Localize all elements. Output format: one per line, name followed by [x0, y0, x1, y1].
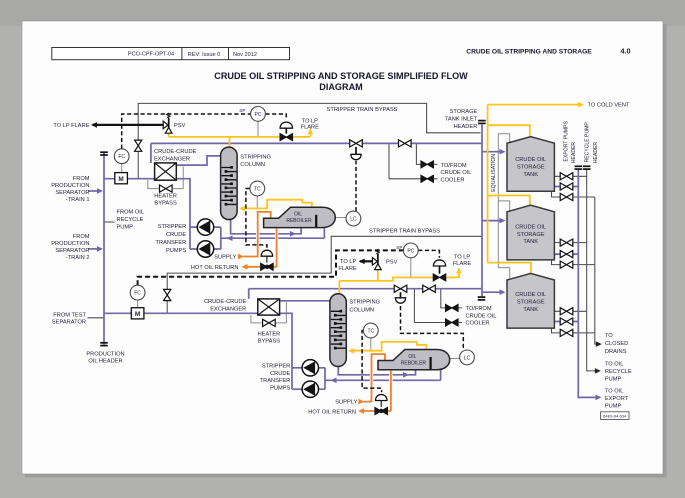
svg-text:BYPASS: BYPASS: [154, 201, 177, 207]
valve: tank2 recycle: [560, 239, 573, 246]
svg-text:TANK: TANK: [523, 239, 538, 245]
instrument LC1: [346, 211, 361, 226]
column C2 trays: [331, 310, 346, 350]
svg-text:TO LP: TO LP: [454, 254, 471, 260]
wire: reboiler1 vapour return: [241, 200, 312, 209]
wire: tank3 inlet branch: [482, 291, 502, 293]
svg-text:TO LP FLARE: TO LP FLARE: [53, 123, 89, 129]
svg-text:STRIPPING: STRIPPING: [240, 154, 271, 160]
wire: tank1 recycle outlet: [554, 175, 586, 177]
flare line 1 (black): [93, 124, 164, 126]
wire: reboiler1 to LC1: [335, 217, 346, 219]
svg-text:TO/FROM: TO/FROM: [466, 306, 492, 312]
signal: PC1 to flare valve1: [265, 114, 286, 120]
wire: hot oil supply 1: [244, 212, 271, 257]
signal: LC1 to rundown valve1: [355, 161, 357, 212]
arrow: hot oil return 1 out: [242, 264, 248, 270]
svg-text:PUMP: PUMP: [117, 225, 134, 231]
svg-text:CRUDE OIL STRIPPING AND STORAG: CRUDE OIL STRIPPING AND STORAGE SIMPLIFI…: [214, 71, 468, 81]
wire: hot oil return 1: [247, 229, 277, 267]
arrow: column2 bottoms flow: [403, 372, 409, 378]
svg-text:4.0: 4.0: [621, 47, 631, 56]
valve: tank3 drain: [560, 329, 573, 336]
page shadow: [663, 24, 667, 476]
valve: heater bypass 2: [263, 319, 276, 326]
svg-text:FLARE: FLARE: [453, 261, 472, 267]
svg-text:PC: PC: [255, 112, 262, 118]
flare line 2 arrowhead: [359, 259, 365, 265]
pump P2B stripper crude transfer: [302, 381, 318, 397]
arrow: to closed drains: [596, 341, 602, 347]
wire: storage tank inlet header: [481, 125, 483, 297]
svg-text:EXCHANGER: EXCHANGER: [210, 306, 246, 312]
svg-text:STRIPPER TRAIN BYPASS: STRIPPER TRAIN BYPASS: [327, 107, 398, 113]
svg-text:TO/FROM: TO/FROM: [441, 163, 467, 169]
svg-text:DRAINS: DRAINS: [605, 349, 627, 355]
valve: tank2 drain: [560, 261, 573, 268]
svg-text:EXCHANGER: EXCHANGER: [154, 156, 190, 162]
wire: pump1 suction stubs: [190, 227, 197, 249]
reboiler R2 kettle: [378, 350, 450, 370]
PSV1 relief valve: [163, 113, 172, 133]
wire: test separator leader: [88, 317, 105, 319]
wire: pump2 suction stubs: [292, 368, 302, 389]
reboiler R2 weir: [430, 357, 432, 369]
svg-text:HEADER: HEADER: [593, 142, 599, 164]
svg-text:FC: FC: [118, 154, 125, 160]
motor M2: [131, 308, 144, 319]
arrow: to oil export pump: [596, 395, 602, 401]
svg-text:PUMPS: PUMPS: [270, 385, 290, 391]
svg-text:PUMPS: PUMPS: [166, 248, 186, 254]
svg-text:COOLER: COOLER: [441, 178, 465, 184]
svg-text:PCO-CPF-OPT-04: PCO-CPF-OPT-04: [128, 52, 174, 58]
column C1 stripping: [221, 147, 238, 220]
wire: hot oil supply 2: [364, 354, 385, 402]
wire: column2 bottoms to reboiler: [338, 367, 415, 375]
svg-text:FROM: FROM: [73, 234, 90, 240]
arrow: reboiler1 vapour into column: [239, 206, 245, 212]
svg-text:STORAGE: STORAGE: [517, 300, 545, 306]
wire: FC1 to M1: [121, 164, 123, 173]
wire: tank2 recycle outlet: [554, 242, 586, 244]
wire: hot oil return 2: [363, 371, 391, 411]
svg-text:CRUDE OIL: CRUDE OIL: [441, 170, 472, 176]
wire: rundown train1: [151, 143, 482, 163]
svg-text:M: M: [135, 311, 140, 318]
svg-text:SUPPLY: SUPPLY: [335, 400, 357, 406]
svg-text:STORAGE: STORAGE: [517, 165, 545, 171]
tank T2 crude oil storage: [507, 205, 554, 260]
white casings at orange crossings: [258, 231, 391, 383]
svg-text:REBOILER: REBOILER: [286, 218, 312, 224]
tick: export pumps header: [575, 166, 583, 169]
svg-text:EXPORT PUMPS: EXPORT PUMPS: [564, 121, 570, 162]
wire: TC1 sense line: [256, 196, 258, 209]
valve: cooler1 isolation upper (closed): [421, 161, 434, 168]
svg-text:OIL: OIL: [408, 354, 416, 360]
pump P2A stripper crude transfer: [302, 360, 318, 376]
reboiler R1 weir: [315, 215, 317, 227]
svg-text:M: M: [118, 176, 123, 183]
svg-text:PC: PC: [407, 248, 414, 254]
exchanger E2 crude-crude: [258, 299, 280, 315]
wire: PC2 sense line: [410, 258, 412, 278]
wire: export pumps header: [578, 170, 597, 398]
actuator: flare1 control valve dome: [280, 122, 292, 133]
svg-text:SEPARATOR: SEPARATOR: [55, 248, 89, 254]
wire: cooler branch train2 upper: [441, 289, 462, 308]
valve: rundown1 LC control valve body: [350, 140, 363, 147]
signal: TC1 to hot oil valve1: [246, 189, 267, 248]
motor M1: [115, 173, 128, 184]
valve: train1 bypass isolation (vertical): [135, 140, 142, 151]
valve: heater bypass 1: [160, 185, 173, 192]
svg-text:RECYCLE: RECYCLE: [117, 217, 144, 223]
svg-text:TO LP: TO LP: [302, 118, 319, 124]
svg-text:SUPPLY: SUPPLY: [214, 255, 236, 261]
wire: PC1 sense line: [257, 121, 259, 136]
arrow: hot oil return 2 out: [358, 408, 364, 414]
valve: tank3 recycle: [560, 308, 573, 315]
svg-text:CLOSED: CLOSED: [605, 341, 628, 347]
svg-text:OIL: OIL: [294, 212, 302, 218]
wire: tank1 export outlet: [554, 186, 578, 188]
svg-text:STRIPPER: STRIPPER: [262, 364, 290, 370]
valve: train2 bypass isolation (vertical): [164, 289, 171, 300]
arrow: hot oil supply 2 in: [359, 399, 365, 405]
svg-text:REV: Issue 0: REV: Issue 0: [188, 52, 220, 58]
svg-text:TRANSFER: TRANSFER: [260, 378, 291, 384]
arrow: separator train1 in: [97, 188, 103, 194]
wire: tank2 vent branch: [488, 196, 530, 207]
valve: rundown2 LC control valve body: [394, 285, 407, 292]
arrow: to LP flare 1 up: [308, 128, 314, 134]
svg-text:TO COLD VENT: TO COLD VENT: [588, 103, 630, 109]
svg-text:TC: TC: [367, 329, 374, 335]
wire: pump1 discharge manifold: [214, 227, 221, 249]
valve: tank1 export: [560, 183, 573, 190]
svg-text:-TRAIN 1: -TRAIN 1: [66, 197, 90, 203]
wire: separator train1 inlet: [88, 190, 100, 192]
wire: cooler branch train2: [414, 289, 462, 323]
actuator: flare2 control valve dome: [433, 260, 445, 274]
svg-text:PSV: PSV: [386, 259, 398, 265]
svg-text:REBOILER: REBOILER: [401, 360, 427, 366]
wire: cooler branch train1 upper: [416, 143, 437, 164]
arrow: reboiler2 to pumps flow: [331, 378, 337, 384]
svg-text:Nov 2012: Nov 2012: [233, 52, 257, 58]
arrow: to oil recycle pump: [595, 368, 601, 374]
wire: column2 vapour riser: [338, 281, 340, 295]
svg-text:HEADER: HEADER: [454, 124, 478, 130]
column C2 stripping: [330, 294, 346, 367]
tick: production header top: [100, 152, 108, 155]
svg-text:CRUDE OIL STRIPPING AND STORAG: CRUDE OIL STRIPPING AND STORAGE: [466, 48, 592, 55]
svg-text:EXPORT: EXPORT: [605, 396, 629, 402]
signal: FC2 to PC2 setpoint: [138, 250, 404, 285]
svg-text:COLUMN: COLUMN: [240, 162, 265, 168]
instrument TC2: [363, 323, 378, 338]
svg-text:SP: SP: [396, 245, 402, 250]
wire: equalisation header: [498, 134, 509, 268]
wire: exchanger1 to pumps: [176, 179, 190, 249]
svg-text:HOT OIL RETURN: HOT OIL RETURN: [308, 409, 356, 415]
wire: TC2 sense line: [370, 338, 372, 351]
arrow: to LP flare 2 up: [456, 267, 462, 273]
pump P1A stripper crude transfer: [197, 219, 213, 235]
pump P1B stripper crude transfer: [197, 241, 213, 257]
svg-text:CRUDE-CRUDE: CRUDE-CRUDE: [204, 299, 247, 305]
svg-text:SP: SP: [239, 108, 245, 113]
wire: exchanger1 to column1 feed: [176, 156, 221, 165]
svg-text:CRUDE-CRUDE: CRUDE-CRUDE: [154, 149, 197, 155]
wire: train1 feed to exchanger: [104, 178, 155, 180]
svg-text:PSV: PSV: [174, 123, 186, 129]
wire: recycle pump leader: [104, 221, 115, 223]
svg-text:STRIPPING: STRIPPING: [349, 300, 380, 306]
wire: tank1 vent branch: [488, 125, 530, 137]
wire: exchanger2 to pumps2: [280, 313, 292, 389]
arrow: hot oil supply 1 in: [238, 254, 244, 260]
wire: heater bypass 2 loop: [251, 302, 287, 323]
reboiler R1 kettle: [264, 207, 336, 227]
arrow: to cold vent: [578, 102, 584, 108]
signal: PC2 to flare valve2: [418, 250, 439, 257]
svg-text:HEADER: HEADER: [571, 142, 577, 164]
valve: tank1 recycle: [560, 173, 573, 180]
arrow: tank3 inlet: [500, 289, 506, 295]
svg-text:FROM OIL: FROM OIL: [117, 210, 145, 216]
wire: column1 overhead yellow: [169, 130, 311, 137]
wire: stripper train 1 bypass (gray): [138, 103, 480, 178]
svg-text:PRODUCTION: PRODUCTION: [86, 352, 124, 358]
valve: hot oil return 1 control (globe + dome): [261, 250, 274, 270]
wire: reboiler1 to pumps: [221, 228, 325, 239]
instrument TC1: [250, 181, 265, 196]
wire: equalisation stub tank2: [498, 201, 509, 211]
svg-text:FLARE: FLARE: [338, 266, 357, 272]
tick: production header bottom: [100, 343, 108, 346]
arrow: tank2 inlet: [500, 218, 506, 224]
wire: rundown train2: [249, 289, 482, 299]
column C1 trays: [222, 166, 237, 206]
svg-text:LC: LC: [464, 355, 471, 361]
wire: train2 feed to exchanger: [104, 312, 258, 314]
exchanger E1 crude-crude: [155, 163, 177, 180]
valve: flare1 control valve body (closed): [280, 134, 293, 141]
wire: closed drains header: [595, 197, 598, 344]
instrument PC2: [403, 243, 418, 258]
actuator: rundown2 LC valve dome (below): [395, 292, 405, 303]
svg-text:COOLER: COOLER: [466, 321, 490, 327]
svg-text:OIL HEADER: OIL HEADER: [88, 359, 122, 365]
wire: column2 overhead yellow: [339, 269, 459, 281]
wire: tank1 drain: [552, 191, 595, 197]
arrow: separator train2 in: [97, 246, 103, 252]
actuator: rundown1 LC valve dome (below): [351, 147, 361, 160]
wire: pump2 discharge manifold: [319, 368, 326, 389]
wire: stripper train 2 bypass (gray): [167, 236, 482, 313]
svg-text:TO OIL: TO OIL: [605, 389, 624, 395]
tick: storage tank inlet header: [478, 121, 486, 124]
wire: tank2 drain: [552, 260, 595, 265]
wire: tank3 drain: [552, 328, 595, 333]
svg-text:STRIPPER: STRIPPER: [158, 224, 186, 230]
wire: recycle pump header: [587, 170, 597, 371]
svg-text:RECYCLE PUMP: RECYCLE PUMP: [585, 122, 591, 163]
valve: rundown1 manual: [399, 140, 412, 147]
wire: reboiler2 vapour return: [350, 342, 426, 351]
wire: cold vent header: [488, 105, 580, 263]
signal: TC2 to hot oil valve2: [362, 331, 382, 393]
valve: hot oil return 2 control (globe + dome): [375, 395, 388, 415]
svg-text:CRUDE: CRUDE: [270, 371, 290, 377]
arrow: reboiler2 vapour into column: [348, 348, 354, 354]
svg-text:LC: LC: [350, 217, 357, 223]
valve: cooler2 isolation lower (closed): [446, 319, 459, 326]
signal: FC1 to PC1 setpoint: [122, 114, 251, 149]
svg-text:HEATER: HEATER: [154, 193, 177, 199]
svg-text:FLARE: FLARE: [301, 124, 320, 130]
valve: tank3 export: [560, 318, 573, 325]
svg-text:BYPASS: BYPASS: [258, 339, 281, 345]
arrow: reboiler1 to pumps flow: [227, 235, 233, 241]
wire: tank2 inlet branch: [482, 220, 502, 222]
header box: [52, 47, 631, 93]
svg-text:STORAGE: STORAGE: [450, 109, 478, 115]
valve: flare2 control valve body (closed): [433, 274, 446, 281]
svg-text:EQUALISATION: EQUALISATION: [491, 154, 497, 192]
svg-text:STORAGE: STORAGE: [517, 232, 545, 238]
svg-text:PRODUCTION: PRODUCTION: [51, 183, 89, 189]
instrument LC2: [460, 350, 475, 365]
wire: tank2 export outlet: [554, 253, 578, 255]
arrow: column1 bottoms flow: [290, 231, 296, 237]
svg-text:PUMP: PUMP: [605, 377, 622, 383]
svg-text:RECYCLE: RECYCLE: [605, 369, 632, 375]
valve: cooler1 isolation lower (closed): [421, 175, 434, 182]
flare line 2 (black): [360, 260, 373, 262]
svg-text:-TRAIN 2: -TRAIN 2: [66, 255, 90, 261]
svg-text:CRUDE OIL: CRUDE OIL: [515, 225, 546, 231]
svg-text:PRODUCTION: PRODUCTION: [51, 241, 89, 247]
svg-text:PUMP: PUMP: [605, 404, 622, 410]
PSV2 relief valve: [372, 249, 381, 269]
wire: heater bypass 1 loop: [148, 167, 183, 189]
valve: tank1 drain: [560, 193, 573, 200]
wire: FC2 to M2: [137, 300, 139, 308]
svg-text:CRUDE OIL: CRUDE OIL: [515, 157, 546, 163]
svg-text:CRUDE: CRUDE: [166, 232, 186, 238]
instrument FC2: [130, 285, 145, 300]
svg-text:TO: TO: [605, 333, 613, 339]
wire: separator train2 inlet: [88, 248, 100, 250]
tank T1 crude oil storage: [507, 137, 554, 192]
svg-text:TRANSFER: TRANSFER: [156, 240, 187, 246]
arrow: tank1 inlet: [500, 149, 506, 155]
svg-text:FROM: FROM: [73, 176, 90, 182]
instrument PC1: [251, 107, 266, 122]
svg-text:TO OIL: TO OIL: [605, 362, 624, 368]
svg-text:STRIPPER TRAIN BYPASS: STRIPPER TRAIN BYPASS: [369, 229, 440, 235]
tick: storage header end: [478, 297, 486, 300]
valve: cooler2 isolation upper (closed): [446, 304, 459, 311]
svg-text:HOT OIL RETURN: HOT OIL RETURN: [191, 265, 239, 271]
svg-text:64E9-94-034: 64E9-94-034: [603, 413, 627, 418]
wire: equalisation stub tank3: [498, 268, 509, 281]
svg-text:COLUMN: COLUMN: [349, 307, 374, 313]
wire: exchanger2 to column2 feed: [280, 300, 330, 302]
wire: tank3 vent branch: [488, 263, 531, 275]
svg-text:TC: TC: [254, 187, 261, 193]
wire: reboiler2 to LC2: [450, 358, 460, 360]
wire: tank1 inlet branch: [482, 151, 502, 153]
wire: column1 vapour riser: [229, 137, 231, 148]
svg-text:SEPARATOR: SEPARATOR: [52, 320, 86, 326]
instrument FC1: [114, 149, 129, 164]
flare line 1 arrowhead: [91, 122, 97, 128]
svg-text:TANK: TANK: [523, 172, 538, 178]
valve: tank2 export: [560, 251, 573, 258]
wire: tank3 recycle outlet: [554, 310, 586, 312]
wire: tank3 export outlet: [554, 321, 578, 323]
svg-text:TANK INLET: TANK INLET: [445, 116, 478, 122]
doc number box: [601, 412, 630, 420]
tick: recycle pump header: [583, 166, 591, 169]
svg-text:CRUDE OIL: CRUDE OIL: [515, 292, 546, 298]
wire: reboiler2 to pumps: [325, 370, 441, 380]
svg-text:TANK: TANK: [523, 307, 538, 313]
signal: LC2 to rundown valve2: [401, 306, 464, 350]
svg-text:FROM TEST: FROM TEST: [53, 312, 86, 318]
svg-text:HEATER: HEATER: [258, 331, 281, 337]
wire: cooler branch train1: [389, 143, 438, 178]
valve: rundown2 manual: [423, 285, 436, 292]
svg-text:TO LP: TO LP: [340, 259, 357, 265]
wire: production oil header: [103, 153, 105, 345]
svg-text:SEPARATOR: SEPARATOR: [55, 190, 89, 196]
svg-text:CRUDE OIL: CRUDE OIL: [466, 313, 497, 319]
svg-text:DIAGRAM: DIAGRAM: [319, 82, 362, 92]
wire: column1 bottoms to reboiler: [231, 220, 302, 234]
tank T3 crude oil storage: [507, 273, 554, 328]
svg-text:FC: FC: [134, 291, 141, 297]
